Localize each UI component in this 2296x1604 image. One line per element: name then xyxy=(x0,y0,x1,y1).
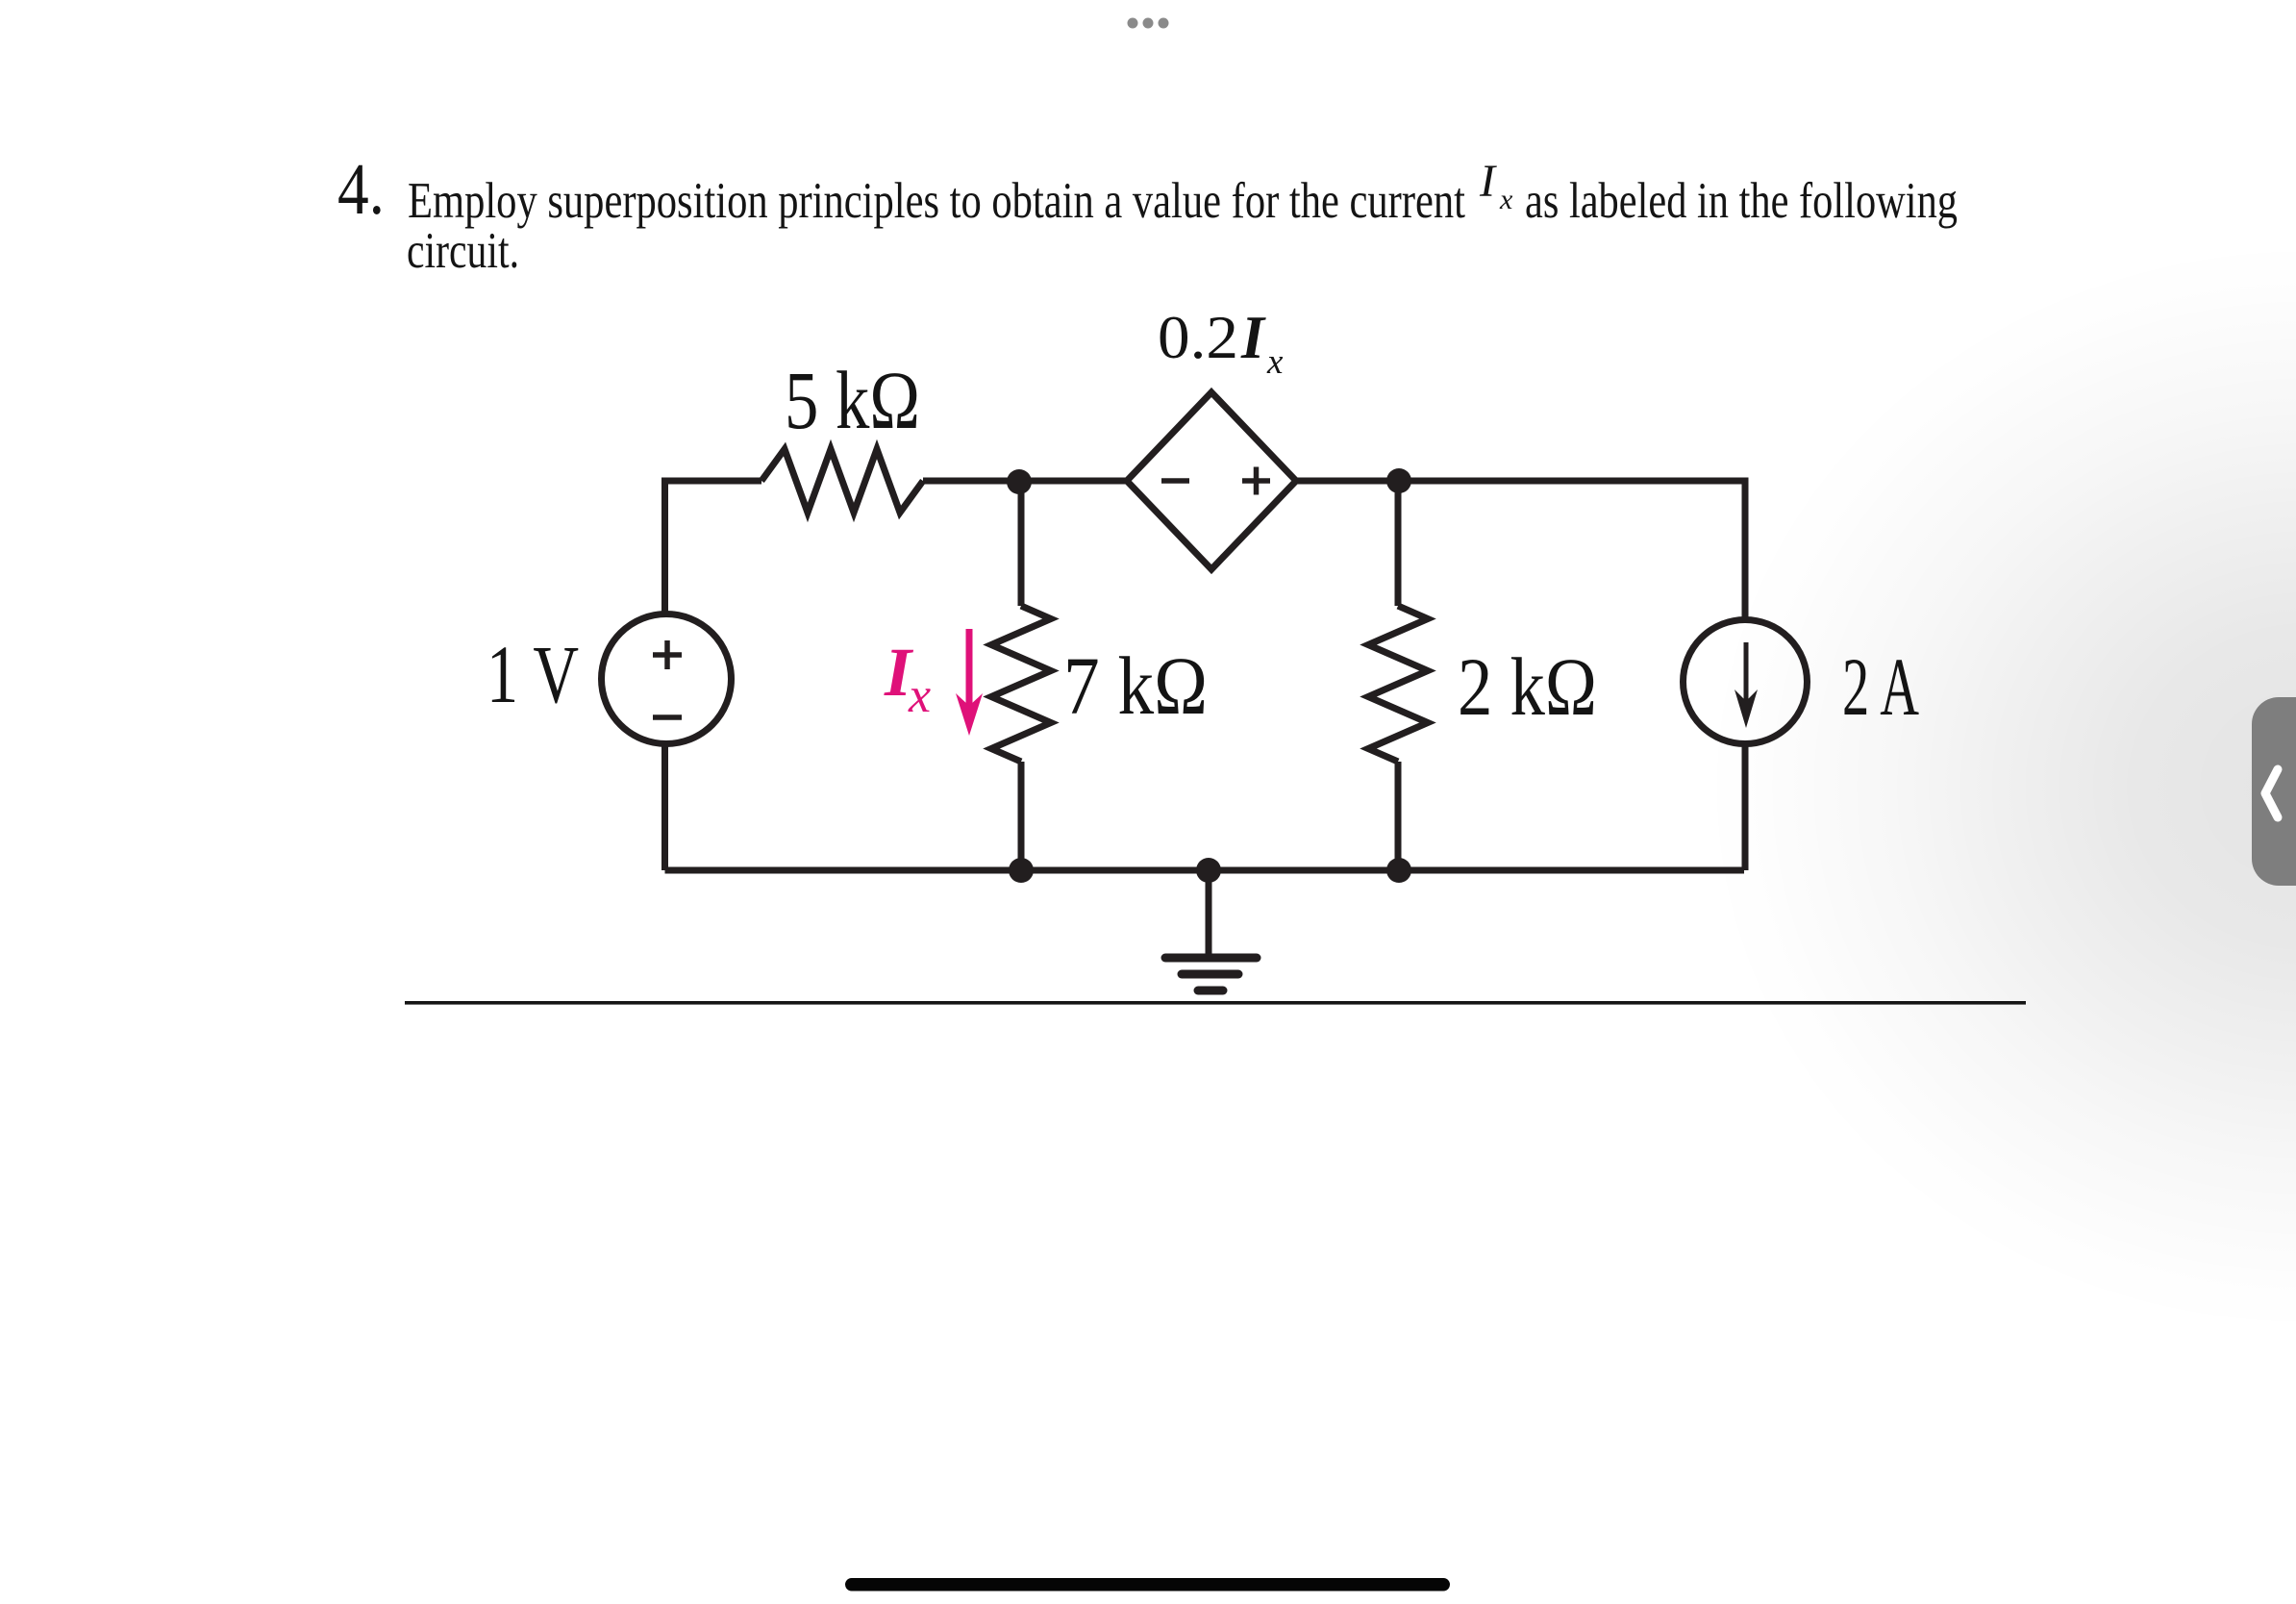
resistor 7 kOhm (vertical zigzag) xyxy=(991,606,1051,762)
svg-text:circuit.: circuit. xyxy=(407,223,519,279)
svg-text:x: x xyxy=(1266,342,1284,382)
junction dot bottom of 2k xyxy=(1386,858,1411,883)
svg-text:Employ superposition principle: Employ superposition principles to obtai… xyxy=(408,173,1465,229)
V1 minus sign xyxy=(653,714,682,720)
diamond plus sign xyxy=(1242,467,1270,495)
wire: right bottom segment (I1 bottom to bottom rail) xyxy=(1742,742,1749,870)
wire: bottom rail xyxy=(665,867,1745,874)
voltage source V1 1V (circle) xyxy=(602,614,732,744)
separator rule under the figure xyxy=(405,1001,2026,1005)
svg-text:1 V: 1 V xyxy=(487,628,579,720)
wire: top-left segment (V1 top up and right to R 5k left lead) xyxy=(665,481,762,615)
wire: 2k branch top (node B down to resistor) xyxy=(1395,481,1402,606)
current source I1 2A (circle) xyxy=(1684,620,1808,744)
svg-text:2 kΩ: 2 kΩ xyxy=(1458,640,1597,733)
svg-text:as labeled in the following: as labeled in the following xyxy=(1525,173,1958,229)
I1 2A arrow (inside circle) xyxy=(1744,642,1749,708)
wire: 7k branch top (node A down to resistor) xyxy=(1018,481,1025,606)
wire: top segment from R 5k to diamond left vertex xyxy=(923,478,1127,485)
home indicator bar (bottom) xyxy=(845,1578,1450,1591)
wire: top segment from diamond to right corner, down to I1 top xyxy=(1296,481,1745,621)
svg-text:I: I xyxy=(1479,156,1497,207)
wire: 7k branch bottom xyxy=(1018,762,1025,870)
junction dot ground node xyxy=(1196,858,1221,883)
node B junction dot (top of 2k) xyxy=(1386,468,1411,493)
svg-text:4.: 4. xyxy=(337,149,385,230)
svg-text:0.2: 0.2 xyxy=(1158,303,1238,371)
svg-text:2 A: 2 A xyxy=(1842,640,1919,733)
side tab chevron < xyxy=(2265,769,2278,817)
dependent voltage source diamond 0.2Ix xyxy=(1127,392,1296,569)
resistor 5 kOhm (horizontal zigzag) xyxy=(761,449,923,513)
svg-text:7 kΩ: 7 kΩ xyxy=(1063,639,1208,732)
svg-text:x: x xyxy=(908,668,931,723)
junction dot bottom of 7k xyxy=(1009,858,1034,883)
ground symbol bars xyxy=(1165,958,1257,990)
node A junction dot (top of 7k) xyxy=(1007,469,1032,494)
side pull tab (right edge) xyxy=(2252,697,2296,886)
Ix current arrow (magenta) xyxy=(966,629,973,709)
svg-text:I: I xyxy=(1240,303,1266,371)
status ellipsis dots (top center) xyxy=(1128,18,1169,29)
wire: ground stub xyxy=(1206,870,1212,955)
wire: left bottom segment (V1 bottom to bottom rail) xyxy=(661,742,668,870)
resistor 2 kOhm (vertical zigzag) xyxy=(1368,606,1428,762)
svg-text:5 kΩ: 5 kΩ xyxy=(785,354,920,446)
wire: 2k branch bottom xyxy=(1395,762,1402,870)
svg-text:x: x xyxy=(1499,184,1513,215)
V1 plus sign xyxy=(653,640,682,669)
diamond minus sign xyxy=(1161,478,1189,484)
